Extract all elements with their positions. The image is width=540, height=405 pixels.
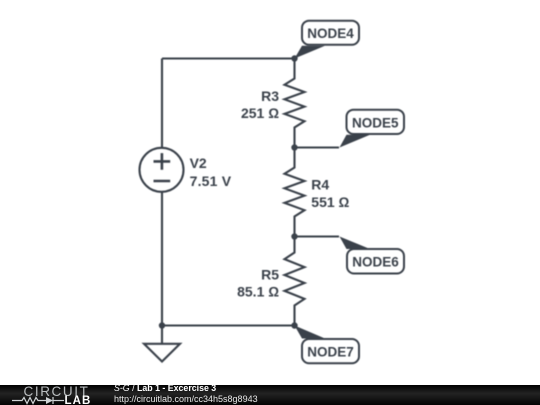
svg-text:7.51 V: 7.51 V bbox=[190, 173, 232, 189]
svg-text:R5: R5 bbox=[261, 266, 279, 282]
svg-text:R3: R3 bbox=[261, 88, 279, 104]
svg-text:251 Ω: 251 Ω bbox=[241, 105, 279, 121]
svg-text:NODE6: NODE6 bbox=[352, 255, 399, 270]
svg-text:R4: R4 bbox=[311, 177, 329, 193]
svg-text:NODE7: NODE7 bbox=[307, 344, 354, 359]
svg-text:NODE5: NODE5 bbox=[352, 115, 399, 130]
svg-text:LAB: LAB bbox=[65, 395, 92, 405]
svg-text:NODE4: NODE4 bbox=[307, 26, 354, 41]
svg-text:V2: V2 bbox=[190, 155, 207, 171]
svg-text:85.1 Ω: 85.1 Ω bbox=[237, 283, 279, 299]
svg-text:551 Ω: 551 Ω bbox=[311, 194, 349, 210]
